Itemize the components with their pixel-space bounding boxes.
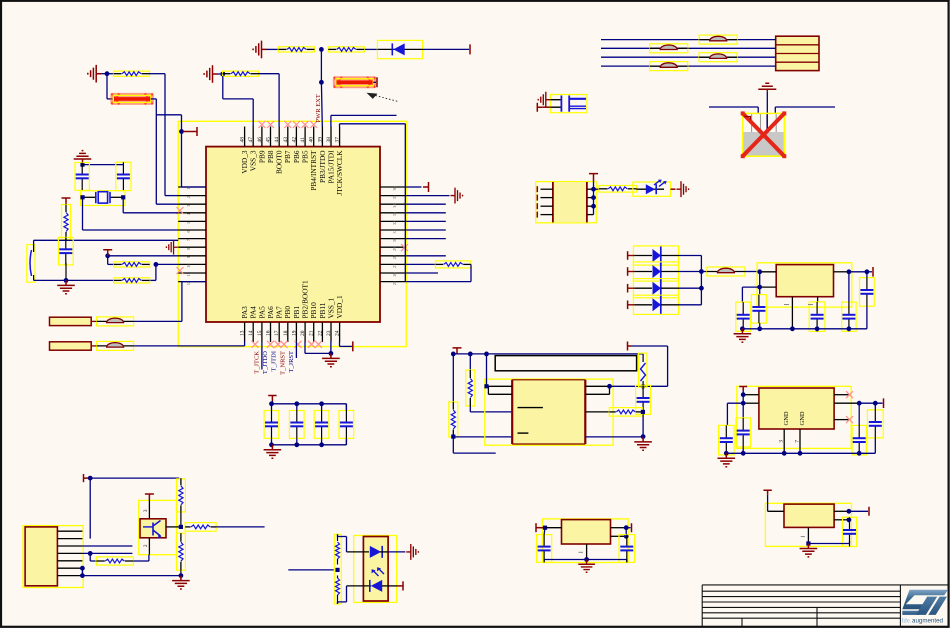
svg-text:T_JRST: T_JRST [288,351,295,373]
svg-text:40: 40 [309,137,315,143]
svg-text:JTCK/SWCLK: JTCK/SWCLK [335,150,344,196]
svg-text:PB6: PB6 [292,150,301,163]
svg-text:4: 4 [186,213,191,215]
svg-text:27: 27 [392,264,397,268]
svg-text:PB1: PB1 [292,306,301,319]
svg-text:14: 14 [248,330,254,336]
svg-text:25: 25 [392,281,397,285]
svg-text:2: 2 [186,196,191,198]
svg-text:PWR EXT: PWR EXT [315,94,322,122]
svg-text:20: 20 [300,330,306,336]
svg-text:48: 48 [240,137,246,143]
svg-text:1: 1 [186,188,191,190]
svg-text:PB10: PB10 [309,302,318,319]
svg-text:PB4/INTRST: PB4/INTRST [309,150,318,191]
svg-text:22: 22 [317,330,323,336]
svg-text:19: 19 [291,330,297,336]
svg-text:13: 13 [240,330,246,336]
svg-text:28: 28 [392,255,397,259]
svg-text:17: 17 [274,330,280,336]
svg-text:36: 36 [392,187,397,191]
svg-text:23: 23 [326,330,332,336]
svg-text:21: 21 [309,330,315,336]
svg-text:VSS_3: VSS_3 [249,150,258,171]
svg-text:VDD_1: VDD_1 [335,295,344,318]
svg-text:PA6: PA6 [266,306,275,319]
svg-text:T_JTCK: T_JTCK [253,351,260,374]
svg-text:GND: GND [783,411,790,425]
svg-text:8: 8 [186,248,191,250]
svg-text:T_JTDO: T_JTDO [262,351,269,374]
svg-text:3: 3 [779,440,785,443]
svg-text:46: 46 [257,137,263,143]
svg-text:44: 44 [274,137,280,143]
svg-text:18: 18 [283,330,289,336]
svg-text:29: 29 [392,247,397,251]
svg-text:34: 34 [392,204,397,208]
svg-text:47: 47 [248,137,254,143]
svg-text:31: 31 [392,230,397,234]
svg-text:T_NRST: T_NRST [279,351,286,375]
svg-text:PB8: PB8 [266,150,275,163]
svg-text:6: 6 [186,231,191,233]
svg-text:30: 30 [392,238,397,242]
svg-text:33: 33 [392,212,397,216]
svg-text:45: 45 [266,137,272,143]
svg-text:37: 37 [335,137,341,143]
svg-text:5: 5 [186,222,191,224]
svg-text:10: 10 [186,264,191,268]
svg-text:GND: GND [799,411,806,425]
svg-text:9: 9 [186,256,191,258]
svg-text:3: 3 [186,205,191,207]
svg-text:11: 11 [186,273,191,277]
svg-text:35: 35 [392,195,397,199]
svg-text:PA4: PA4 [249,306,258,319]
svg-text:32: 32 [392,221,397,225]
svg-text:7: 7 [186,239,191,241]
svg-text:16: 16 [266,330,272,336]
svg-text:15: 15 [257,330,263,336]
svg-text:38: 38 [326,137,332,143]
svg-text:7: 7 [795,440,801,443]
svg-text:42: 42 [291,137,297,143]
svg-text:41: 41 [300,137,306,143]
svg-text:43: 43 [283,137,289,143]
svg-text:39: 39 [317,137,323,143]
svg-text:26: 26 [392,273,397,277]
svg-text:augmented: augmented [912,618,944,625]
svg-text:T_JTDI: T_JTDI [271,351,278,372]
svg-text:24: 24 [335,330,341,336]
